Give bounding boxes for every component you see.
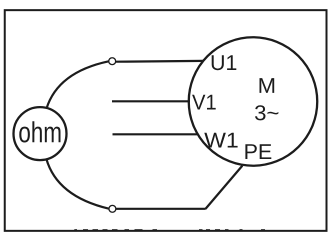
wire PE diagonal	[206, 166, 243, 209]
label ohm	[19, 121, 60, 142]
label 3~	[255, 105, 278, 120]
cropped caption text tops (1000 V DC > 100 Mohm)	[74, 229, 265, 231]
motor M 3~ circle	[189, 37, 318, 166]
terminal node top	[109, 58, 116, 65]
terminal node bottom	[109, 205, 116, 212]
label V1	[192, 95, 216, 110]
wire bottom arc from ohm meter	[46, 159, 109, 209]
wire top arc from ohm meter	[47, 61, 109, 108]
wire V1	[112, 100, 190, 102]
label W1	[204, 133, 237, 148]
label M	[260, 78, 275, 93]
wire U1	[116, 60, 204, 63]
label U1	[212, 55, 237, 70]
wire W1	[113, 133, 199, 135]
ohm meter circle	[14, 107, 67, 160]
label PE	[245, 144, 271, 159]
wire bottom horizontal	[116, 208, 206, 210]
